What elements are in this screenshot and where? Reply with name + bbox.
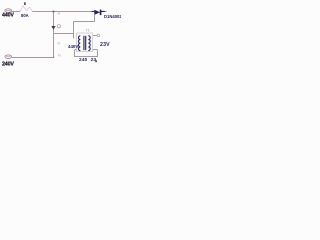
svg-text:80A: 80A bbox=[21, 13, 29, 18]
svg-text:440V: 440V bbox=[2, 13, 14, 19]
svg-text:240: 240 bbox=[79, 57, 88, 63]
svg-text:N: N bbox=[58, 54, 61, 58]
svg-text:N: N bbox=[58, 42, 61, 46]
svg-text:240V: 240V bbox=[2, 61, 14, 67]
svg-text:D1N4002: D1N4002 bbox=[104, 14, 121, 19]
svg-text:23V: 23V bbox=[100, 42, 110, 48]
svg-text:T1: T1 bbox=[86, 28, 90, 32]
svg-text:440V: 440V bbox=[68, 44, 78, 49]
svg-text:23: 23 bbox=[91, 57, 97, 63]
